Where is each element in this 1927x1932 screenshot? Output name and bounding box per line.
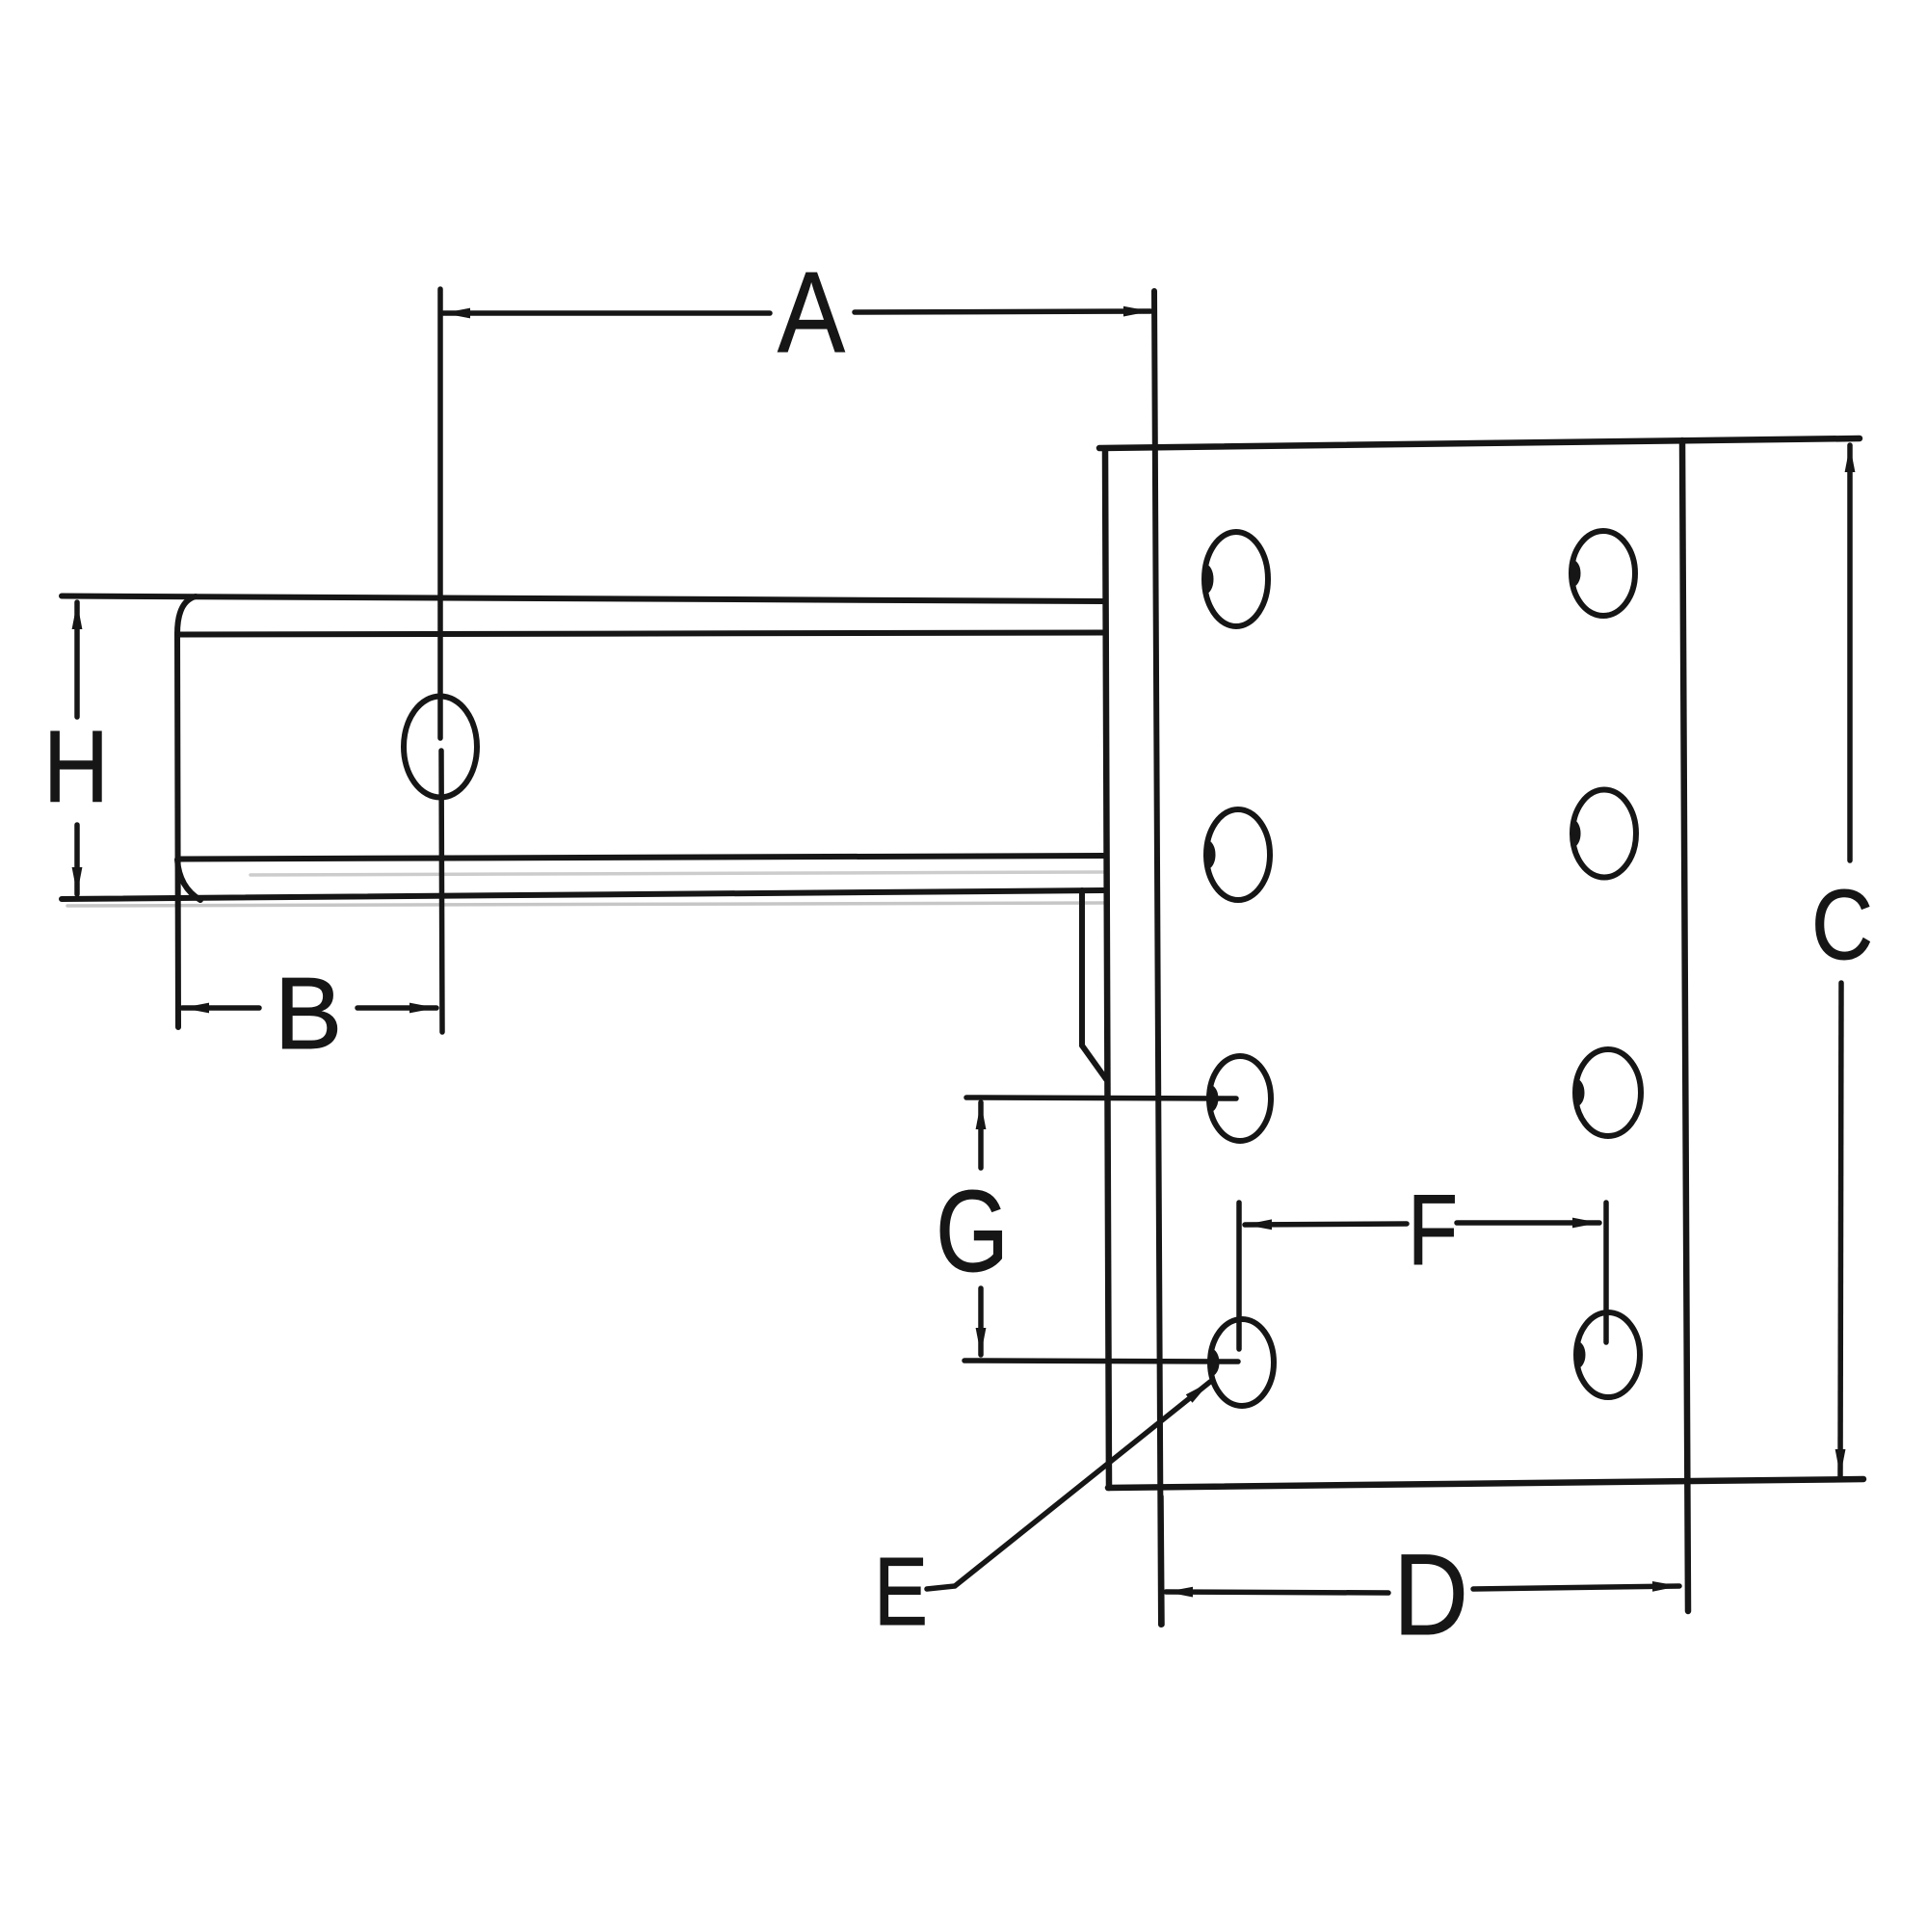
hole row3 right — [1575, 1049, 1641, 1136]
hole row4 left inner wall — [1209, 1350, 1219, 1376]
svg-text:B: B — [275, 957, 343, 1071]
shank bottom-left corner arc — [177, 860, 200, 900]
dimension G line top half with arrow — [978, 1102, 984, 1168]
dimension G top reference line to row3 left hole center — [966, 1098, 1236, 1098]
hole row3 left — [1209, 1056, 1271, 1141]
hole row2 right inner wall — [1571, 820, 1580, 846]
hole row1 left inner wall — [1203, 565, 1213, 593]
plate left edge — [1105, 449, 1109, 1488]
plate top edge (also C top extension) — [1099, 438, 1860, 448]
svg-text:C: C — [1811, 869, 1873, 980]
shank top-left corner arc — [177, 596, 196, 634]
hole row2 left inner wall — [1205, 841, 1215, 868]
svg-text:F: F — [1408, 1175, 1458, 1286]
shank pin hole — [404, 697, 477, 798]
svg-text:H: H — [43, 710, 109, 824]
dimension C line bottom half with arrow — [1840, 983, 1841, 1476]
extension line through shank hole, upper segment (A left extension) — [437, 289, 443, 738]
hole row2 left — [1206, 809, 1270, 900]
dimension H line bottom half with arrow — [74, 825, 80, 894]
dimension G bottom reference line to row4 left hole center — [964, 1361, 1238, 1362]
dimension G line bottom half with arrow — [978, 1288, 984, 1355]
shank tube face bottom edge — [179, 856, 1105, 860]
faint scan ghost below tube face bottom — [251, 872, 1103, 875]
plate right edge (also D right extension) — [1682, 440, 1688, 1611]
dimension A line right half with arrow — [855, 311, 1150, 312]
dimension B line left half with arrow — [182, 1005, 259, 1011]
shank outer bottom line (also H bottom extension) — [62, 890, 1103, 899]
dimension D line right half with arrow — [1473, 1586, 1679, 1589]
shank tube face left edge (also B left extension) — [177, 633, 178, 1027]
hole row1 right inner wall — [1571, 561, 1580, 586]
plate bottom edge (also C bottom extension) — [1108, 1479, 1863, 1488]
svg-text:D: D — [1393, 1530, 1468, 1659]
hole row3 left inner wall — [1208, 1086, 1217, 1111]
dimension D line left half with arrow — [1166, 1592, 1388, 1593]
hole row4 right — [1576, 1312, 1640, 1397]
extension line at plate front-left edge (A right / D left) — [1154, 291, 1161, 1625]
dimension F right extension line — [1603, 1203, 1609, 1342]
shank outer top line (also H top extension) — [62, 596, 1105, 602]
dimension D left extension line — [1161, 1496, 1162, 1625]
svg-text:A: A — [778, 249, 846, 377]
hole row4 right inner wall — [1575, 1342, 1584, 1367]
gusset chamfer diagonal — [1082, 1045, 1106, 1079]
dimension F line right half with arrow — [1457, 1220, 1599, 1226]
dimension B line right half with arrow — [357, 1005, 436, 1011]
label E leader line with arrow — [927, 1382, 1210, 1589]
dimension H line top half with arrow — [74, 602, 80, 717]
shank tube face top edge — [179, 633, 1105, 635]
dimension A line left half with arrow — [443, 310, 770, 316]
hole row1 right — [1571, 531, 1635, 616]
svg-text:G: G — [936, 1167, 1009, 1296]
hole row4 left — [1210, 1319, 1274, 1406]
svg-text:E: E — [874, 1538, 928, 1646]
extension line through shank hole, lower segment (B right extension) — [441, 751, 442, 1032]
dimension F left extension line — [1236, 1203, 1242, 1349]
hole row1 left — [1204, 532, 1268, 626]
hole row3 right inner wall — [1574, 1080, 1584, 1106]
dimension C line top half with arrow — [1847, 445, 1853, 860]
gusset vertical edge below shank — [1079, 890, 1085, 1045]
hole row2 right — [1572, 790, 1636, 878]
dimension F line left half with arrow — [1245, 1224, 1407, 1225]
faint scan ghost below tube bottom — [67, 903, 1103, 906]
